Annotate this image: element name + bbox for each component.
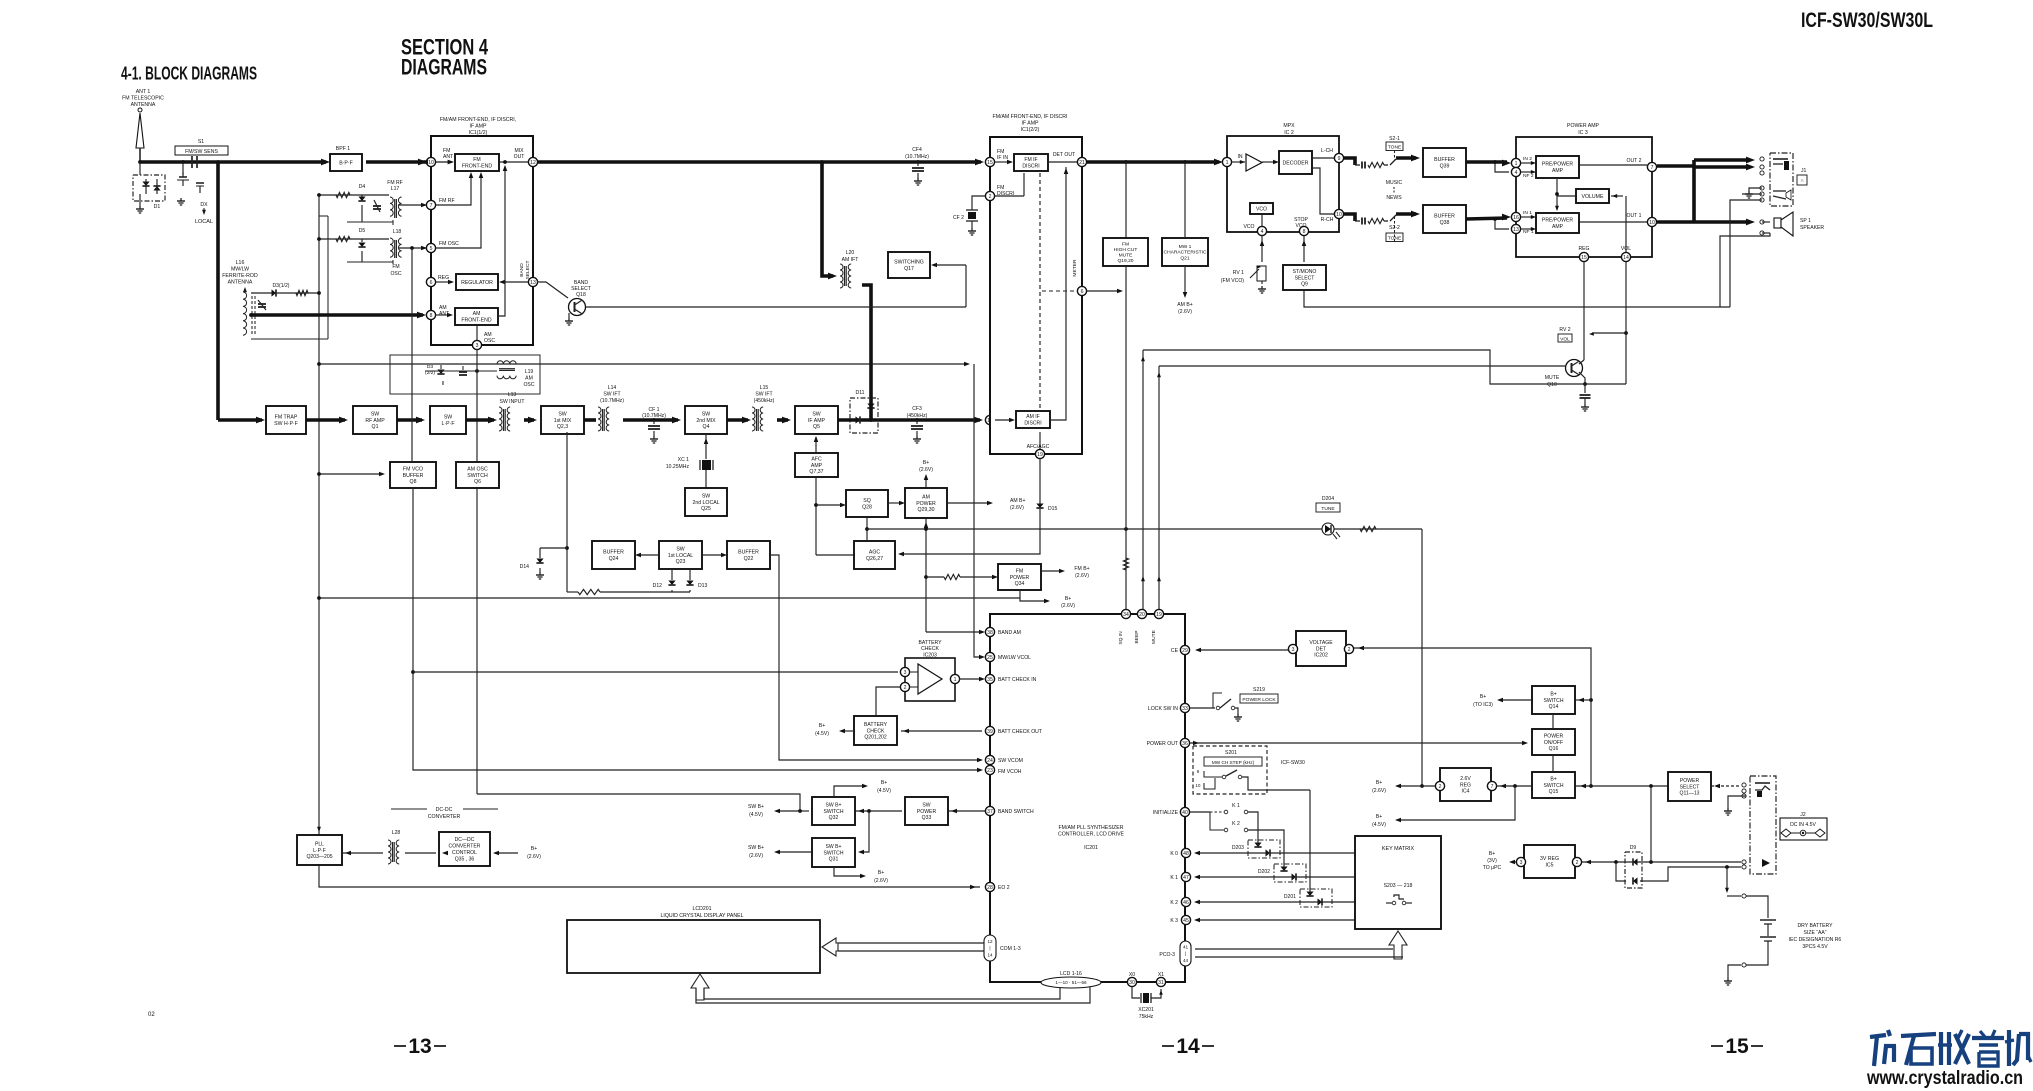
svg-text:OSC: OSC — [390, 271, 401, 277]
svg-text:33: 33 — [1182, 706, 1188, 712]
svg-text:CF 2: CF 2 — [953, 215, 964, 221]
svg-text:BUFFER: BUFFER — [403, 473, 424, 479]
svg-text:Q35 , 36: Q35 , 36 — [455, 856, 475, 862]
svg-text:25: 25 — [987, 655, 993, 661]
svg-text:(2.6V): (2.6V) — [527, 854, 541, 860]
svg-text:BAND AM: BAND AM — [998, 630, 1021, 636]
svg-text:SWITCH: SWITCH — [823, 850, 843, 856]
svg-text:AMP: AMP — [1552, 224, 1564, 230]
svg-text:BAND: BAND — [519, 263, 525, 277]
svg-text:D13: D13 — [698, 583, 708, 589]
svg-text:Q24: Q24 — [609, 556, 619, 562]
svg-text:BUFFER: BUFFER — [603, 550, 624, 556]
svg-text:Q11—13: Q11—13 — [1679, 791, 1699, 797]
svg-text:S201: S201 — [1225, 750, 1237, 756]
svg-text:FM: FM — [392, 264, 399, 270]
svg-text:FM: FM — [1122, 242, 1129, 248]
svg-text:3: 3 — [1292, 647, 1295, 653]
svg-text:34: 34 — [1123, 612, 1129, 618]
svg-text:(4.5V): (4.5V) — [877, 788, 891, 794]
svg-text:MW CH STEP (kHz): MW CH STEP (kHz) — [1212, 760, 1255, 765]
svg-text:1—10 · 51—56: 1—10 · 51—56 — [1055, 980, 1087, 985]
svg-text:FM RF: FM RF — [439, 198, 455, 204]
svg-text:Q38: Q38 — [1440, 220, 1450, 226]
svg-text:DC—DC: DC—DC — [455, 837, 475, 843]
svg-text:FRONT-END: FRONT-END — [462, 164, 493, 170]
svg-text:∩: ∩ — [1800, 178, 1804, 184]
svg-text:BATT CHECK IN: BATT CHECK IN — [998, 677, 1037, 683]
svg-text:OUT 2: OUT 2 — [1627, 158, 1642, 164]
svg-text:R-CH: R-CH — [1321, 217, 1334, 223]
svg-text:2.6V: 2.6V — [1460, 776, 1471, 782]
svg-text:MUTE: MUTE — [1151, 629, 1157, 644]
svg-text:IC1(2/2): IC1(2/2) — [1021, 127, 1040, 133]
svg-text:Q16: Q16 — [1549, 746, 1559, 752]
svg-text:14: 14 — [987, 952, 993, 957]
svg-text:VOL: VOL — [1560, 337, 1570, 343]
svg-text:B·P·F: B·P·F — [339, 160, 353, 166]
svg-text:DET: DET — [1316, 646, 1326, 652]
svg-text:2: 2 — [1439, 784, 1442, 790]
svg-text:FM TRAP: FM TRAP — [275, 415, 298, 421]
svg-text:(2.6V): (2.6V) — [919, 467, 933, 473]
svg-text:13: 13 — [530, 280, 536, 286]
svg-text:BATT CHECK OUT: BATT CHECK OUT — [998, 729, 1042, 735]
svg-text:OSC: OSC — [484, 338, 495, 344]
svg-text:L18: L18 — [393, 229, 402, 235]
svg-text:MW/LW VCOL: MW/LW VCOL — [998, 655, 1031, 661]
svg-text:AM OSC: AM OSC — [467, 466, 488, 472]
svg-text:14: 14 — [1623, 255, 1629, 261]
svg-text:(2.6V): (2.6V) — [1178, 309, 1192, 315]
svg-text:47: 47 — [1183, 875, 1189, 881]
svg-text:Q14: Q14 — [1549, 704, 1559, 710]
svg-text:Q22: Q22 — [744, 556, 754, 562]
svg-text:Q28: Q28 — [862, 505, 872, 511]
svg-text:X0: X0 — [1129, 972, 1135, 978]
svg-text:AFC/AGC: AFC/AGC — [1027, 444, 1050, 450]
svg-text:2: 2 — [989, 194, 992, 200]
svg-text:VOLUME: VOLUME — [1582, 194, 1604, 200]
svg-text:FM/AM FRONT-END, IF DISCRI,: FM/AM FRONT-END, IF DISCRI, — [440, 117, 516, 123]
svg-text:POWER: POWER — [1544, 733, 1564, 739]
svg-text:RF AMP: RF AMP — [365, 418, 385, 424]
svg-text:SWITCH: SWITCH — [1543, 783, 1563, 789]
svg-text:SQ IN: SQ IN — [1118, 631, 1124, 645]
svg-text:36: 36 — [1182, 741, 1188, 747]
svg-text:FM B+: FM B+ — [1074, 566, 1089, 572]
svg-text:21: 21 — [1079, 160, 1085, 166]
svg-text:IC202: IC202 — [1314, 653, 1328, 659]
svg-text:B+: B+ — [819, 723, 825, 729]
svg-text:(2.6V): (2.6V) — [874, 878, 888, 884]
svg-text:MW 1: MW 1 — [1179, 244, 1192, 250]
svg-text:PRE/POWER: PRE/POWER — [1542, 162, 1573, 168]
svg-text:DRY BATTERY: DRY BATTERY — [1797, 923, 1833, 929]
svg-text:S1: S1 — [198, 139, 204, 145]
svg-text:X1: X1 — [1158, 972, 1164, 978]
svg-text:PLL: PLL — [315, 841, 324, 847]
svg-text:10: 10 — [1336, 212, 1342, 218]
svg-text:AM: AM — [473, 311, 481, 317]
svg-text:L-CH: L-CH — [1321, 148, 1333, 154]
svg-text:LOCK SW IN: LOCK SW IN — [1148, 706, 1178, 712]
svg-text:Q1: Q1 — [372, 424, 379, 430]
svg-text:15: 15 — [987, 160, 993, 166]
svg-text:K 2: K 2 — [1232, 821, 1240, 827]
svg-text:IN: IN — [1237, 154, 1242, 160]
svg-text:L14: L14 — [608, 385, 617, 391]
svg-text:16: 16 — [1513, 215, 1519, 221]
svg-text:14: 14 — [1176, 1035, 1200, 1058]
svg-text:37: 37 — [987, 809, 993, 815]
svg-text:Q9: Q9 — [1301, 282, 1308, 288]
svg-text:Q29,30: Q29,30 — [917, 507, 934, 513]
svg-text:B+: B+ — [923, 460, 929, 466]
svg-text:OUT 1: OUT 1 — [1627, 213, 1642, 219]
svg-text:SELECT: SELECT — [1295, 275, 1315, 281]
svg-text:L19: L19 — [525, 369, 534, 375]
svg-text:SW IFT: SW IFT — [603, 391, 620, 397]
svg-text:IC5: IC5 — [1545, 863, 1553, 869]
svg-text:POWER: POWER — [1680, 778, 1700, 784]
svg-text:MUTE: MUTE — [1545, 375, 1560, 381]
svg-text:FM/SW SENS: FM/SW SENS — [185, 149, 218, 155]
svg-text:Q23: Q23 — [676, 559, 686, 565]
svg-text:1st LOCAL: 1st LOCAL — [668, 553, 693, 559]
svg-text:L15: L15 — [760, 385, 769, 391]
svg-text:L16: L16 — [236, 260, 245, 266]
svg-text:15: 15 — [1725, 1035, 1749, 1058]
svg-text:INITIALIZE: INITIALIZE — [1153, 810, 1179, 816]
svg-text:K 1: K 1 — [1232, 803, 1240, 809]
svg-text:24: 24 — [987, 758, 993, 764]
svg-text:(4.5V): (4.5V) — [1372, 822, 1386, 828]
svg-text:CONTROL: CONTROL — [452, 850, 477, 856]
svg-text:Q33: Q33 — [922, 815, 932, 821]
svg-text:46: 46 — [1183, 900, 1189, 906]
svg-text:1: 1 — [1226, 160, 1229, 166]
svg-text:AMP: AMP — [811, 463, 823, 469]
svg-text:POWER OUT: POWER OUT — [1147, 741, 1178, 747]
svg-text:SW VCOM: SW VCOM — [998, 758, 1023, 764]
svg-text:39: 39 — [987, 729, 993, 735]
svg-text:Q7,37: Q7,37 — [809, 469, 823, 475]
svg-text:AGC: AGC — [869, 550, 880, 556]
svg-text:Q10: Q10 — [1547, 382, 1557, 388]
svg-text:Q6: Q6 — [474, 479, 481, 485]
svg-text:10.25MHz: 10.25MHz — [666, 464, 690, 470]
svg-text:AM IF: AM IF — [1026, 414, 1040, 420]
svg-text:D201: D201 — [1284, 894, 1296, 900]
svg-text:MUSIC: MUSIC — [1386, 180, 1403, 186]
svg-text:D1: D1 — [154, 204, 161, 210]
svg-text:ANT: ANT — [443, 154, 453, 160]
svg-text:ANT 1: ANT 1 — [136, 89, 151, 95]
svg-text:NEWS: NEWS — [1386, 195, 1402, 201]
svg-text:CF4: CF4 — [912, 147, 922, 153]
svg-text:3: 3 — [904, 670, 907, 676]
svg-text:NF 2: NF 2 — [1523, 173, 1534, 179]
svg-text:(2.6V): (2.6V) — [749, 853, 763, 859]
svg-text:POWER: POWER — [916, 501, 936, 507]
svg-text:SWITCH: SWITCH — [467, 473, 488, 479]
svg-text:DX: DX — [200, 202, 208, 208]
svg-text:13: 13 — [1513, 227, 1519, 233]
svg-text:7: 7 — [1491, 784, 1494, 790]
svg-text:SW: SW — [558, 411, 566, 417]
svg-text:40: 40 — [1182, 810, 1188, 816]
svg-text:L28: L28 — [392, 830, 401, 836]
svg-text:Q31: Q31 — [829, 857, 839, 863]
svg-text:D15: D15 — [1048, 506, 1058, 512]
svg-text:SW: SW — [922, 802, 930, 808]
svg-text:1: 1 — [954, 677, 957, 683]
svg-text:75kHz: 75kHz — [1139, 1014, 1154, 1020]
svg-text:ANTENNA: ANTENNA — [228, 280, 253, 286]
svg-text:D204: D204 — [1322, 496, 1334, 502]
svg-text:SW: SW — [371, 411, 379, 417]
svg-text:SW IFT: SW IFT — [755, 391, 772, 397]
svg-text:SW B+: SW B+ — [748, 845, 764, 851]
svg-text:K 2: K 2 — [1170, 900, 1178, 906]
svg-text:Q2,3: Q2,3 — [557, 424, 568, 430]
svg-text:LIQUID CRYSTAL DISPLAY PANEL: LIQUID CRYSTAL DISPLAY PANEL — [661, 913, 744, 919]
svg-text:(3V): (3V) — [1487, 858, 1497, 864]
svg-text:15: 15 — [1581, 255, 1587, 261]
svg-text:Q8: Q8 — [410, 479, 417, 485]
svg-text:5: 5 — [430, 246, 433, 252]
svg-text:DC-DC: DC-DC — [436, 807, 453, 813]
svg-text:B+: B+ — [1065, 596, 1071, 602]
svg-text:AM: AM — [525, 375, 533, 381]
svg-text:VCO: VCO — [1243, 224, 1254, 230]
svg-text:DISCRI: DISCRI — [1024, 420, 1041, 426]
svg-text:IF AMP: IF AMP — [1021, 121, 1039, 127]
svg-text:SW INPUT: SW INPUT — [500, 399, 525, 405]
svg-text:ST/MONO: ST/MONO — [1293, 269, 1317, 275]
svg-text:TUNE: TUNE — [1321, 506, 1335, 512]
svg-text:IF AMP: IF AMP — [469, 124, 487, 130]
svg-text:(FM VCO): (FM VCO) — [1221, 278, 1245, 284]
svg-text:D12: D12 — [653, 583, 663, 589]
svg-text:(TO IC3): (TO IC3) — [1473, 702, 1493, 708]
svg-text:SW B+: SW B+ — [826, 844, 842, 850]
svg-text:TONE: TONE — [1388, 145, 1402, 151]
svg-text:(4.5V): (4.5V) — [749, 812, 763, 818]
svg-text:HIGH CUT: HIGH CUT — [1114, 247, 1138, 253]
svg-text:2nd MIX: 2nd MIX — [696, 418, 716, 424]
svg-text:REG: REG — [1460, 782, 1471, 788]
svg-text:Q5: Q5 — [813, 424, 820, 430]
svg-text:13: 13 — [408, 1035, 431, 1058]
svg-text:2: 2 — [904, 685, 907, 691]
svg-text:D4: D4 — [359, 184, 366, 190]
svg-text:3: 3 — [476, 343, 479, 349]
svg-text:FM/AM FRONT-END, IF DISCRI: FM/AM FRONT-END, IF DISCRI — [993, 114, 1068, 120]
svg-text:S203 — 218: S203 — 218 — [1384, 883, 1413, 889]
svg-text:K 3: K 3 — [1170, 918, 1178, 924]
svg-text:BUFFER: BUFFER — [738, 550, 759, 556]
svg-text:SWITCH: SWITCH — [823, 809, 843, 815]
svg-text:FM VCO: FM VCO — [403, 466, 423, 472]
svg-text:POWER AMP: POWER AMP — [1567, 123, 1600, 129]
svg-text:FRONT-END: FRONT-END — [461, 318, 492, 324]
svg-text:SW: SW — [702, 493, 710, 499]
svg-text:Q25: Q25 — [701, 506, 711, 512]
svg-text:1: 1 — [1515, 161, 1518, 167]
svg-text:7: 7 — [1651, 165, 1654, 171]
svg-text:Q32: Q32 — [829, 815, 839, 821]
svg-text:FM: FM — [1016, 568, 1024, 574]
svg-text:02: 02 — [148, 1012, 155, 1018]
svg-text:AM B+: AM B+ — [1010, 498, 1025, 504]
svg-text:CONTROLLER, LCD DRIVE: CONTROLLER, LCD DRIVE — [1058, 832, 1125, 838]
svg-text:TO μPC: TO μPC — [1483, 865, 1502, 871]
svg-text:Q15: Q15 — [1549, 789, 1559, 795]
svg-text:VCO: VCO — [1295, 223, 1306, 229]
svg-text:44: 44 — [1183, 958, 1189, 963]
svg-text:35: 35 — [987, 677, 993, 683]
svg-text:AM B+: AM B+ — [1177, 302, 1192, 308]
svg-text:(2.6V): (2.6V) — [1372, 788, 1386, 794]
svg-text:3V REG: 3V REG — [1540, 856, 1559, 862]
svg-text:IEC DESIGNATION R6: IEC DESIGNATION R6 — [1789, 937, 1842, 943]
svg-text:Q4: Q4 — [703, 424, 710, 430]
svg-text:L·P·F: L·P·F — [442, 421, 455, 427]
svg-text:REGULATOR: REGULATOR — [461, 280, 493, 286]
svg-text:SW: SW — [702, 411, 710, 417]
svg-text:XC201: XC201 — [1138, 1007, 1154, 1013]
svg-text:LOCAL: LOCAL — [195, 219, 213, 225]
svg-text:SW: SW — [812, 411, 820, 417]
svg-text:8: 8 — [1303, 229, 1306, 235]
svg-text:(450kHz): (450kHz) — [907, 413, 928, 419]
svg-text:SWITCH: SWITCH — [1543, 698, 1563, 704]
svg-text:S219: S219 — [1253, 687, 1265, 693]
svg-text:19: 19 — [1156, 612, 1162, 618]
svg-text:38: 38 — [987, 630, 993, 636]
svg-text:D9: D9 — [1630, 845, 1637, 851]
svg-text:SW B+: SW B+ — [826, 802, 842, 808]
svg-text:METER: METER — [1072, 259, 1078, 277]
svg-text:BUFFER: BUFFER — [1434, 157, 1455, 163]
svg-text:FM OSC: FM OSC — [439, 241, 459, 247]
svg-text:8: 8 — [430, 313, 433, 319]
svg-text:(2.6V): (2.6V) — [1010, 505, 1024, 511]
svg-text:Q39: Q39 — [1440, 164, 1450, 170]
svg-text:DC IN 4.5V: DC IN 4.5V — [1790, 822, 1816, 828]
svg-text:DIAGRAMS: DIAGRAMS — [401, 55, 487, 80]
svg-text:CONVERTER: CONVERTER — [449, 844, 481, 850]
svg-text:10: 10 — [428, 160, 434, 166]
svg-text:D3: D3 — [427, 364, 434, 370]
svg-text:PCO-3: PCO-3 — [1159, 952, 1175, 958]
svg-text:IC 3: IC 3 — [1578, 130, 1588, 136]
svg-text:IF AMP: IF AMP — [808, 418, 826, 424]
svg-text:LCD 1-16: LCD 1-16 — [1060, 971, 1082, 977]
svg-text:1st MIX: 1st MIX — [554, 418, 572, 424]
svg-text:Q26,27: Q26,27 — [866, 556, 883, 562]
svg-text:4-1. BLOCK DIAGRAMS: 4-1. BLOCK DIAGRAMS — [121, 63, 257, 84]
svg-text:S2-2: S2-2 — [1389, 225, 1400, 231]
svg-text:6: 6 — [1081, 289, 1084, 295]
svg-text:SELECT: SELECT — [525, 260, 531, 279]
svg-text:6: 6 — [430, 280, 433, 286]
svg-text:BATTERY: BATTERY — [864, 722, 888, 728]
svg-text:|: | — [1185, 951, 1186, 956]
svg-text:Q19,20: Q19,20 — [1117, 258, 1133, 264]
svg-text:LCD201: LCD201 — [692, 906, 711, 912]
svg-text:SW: SW — [676, 546, 684, 552]
svg-text:2: 2 — [1348, 647, 1351, 653]
svg-text:KEY MATRIX: KEY MATRIX — [1382, 846, 1415, 852]
svg-text:K 1: K 1 — [1170, 875, 1178, 881]
svg-text:CF3: CF3 — [912, 406, 922, 412]
svg-text:(10.7MHz): (10.7MHz) — [905, 154, 929, 160]
svg-text:D3(1/2): D3(1/2) — [273, 283, 290, 289]
svg-text:FM TELESCOPIC: FM TELESCOPIC — [122, 96, 164, 102]
svg-text:EO 2: EO 2 — [998, 885, 1010, 891]
svg-text:FM: FM — [473, 157, 481, 163]
svg-text:12: 12 — [987, 939, 993, 944]
svg-text:BPF 1: BPF 1 — [336, 146, 351, 152]
svg-text:7: 7 — [430, 203, 433, 209]
svg-text:POWER: POWER — [1010, 575, 1030, 581]
svg-text:Q17: Q17 — [904, 266, 914, 272]
svg-text:DECODER: DECODER — [1283, 160, 1309, 166]
svg-text:S2-1: S2-1 — [1389, 136, 1400, 142]
svg-text:D14: D14 — [520, 564, 530, 570]
svg-text:3: 3 — [1520, 860, 1523, 866]
svg-text:OUT: OUT — [514, 154, 525, 160]
svg-text:(2.6V): (2.6V) — [1075, 573, 1089, 579]
svg-text:CE: CE — [1171, 648, 1179, 654]
svg-text:BAND SWITCH: BAND SWITCH — [998, 809, 1034, 815]
svg-text:MUTE: MUTE — [1119, 252, 1134, 258]
svg-text:CHECK: CHECK — [867, 728, 885, 734]
svg-text:REG: REG — [438, 275, 449, 281]
svg-text:L·P·F: L·P·F — [313, 848, 326, 854]
svg-text:48: 48 — [1183, 851, 1189, 857]
svg-text:POWER LOCK: POWER LOCK — [1242, 697, 1276, 703]
svg-text:L20: L20 — [846, 250, 855, 256]
svg-text:28: 28 — [987, 885, 993, 891]
svg-text:IF IN: IF IN — [997, 155, 1008, 161]
svg-text:FM IF: FM IF — [1024, 157, 1037, 163]
svg-text:10: 10 — [1196, 783, 1201, 788]
svg-text:(10.7MHz): (10.7MHz) — [642, 413, 666, 419]
svg-text:31: 31 — [1158, 980, 1164, 986]
svg-text:4: 4 — [1515, 170, 1518, 176]
svg-text:VOLTAGE: VOLTAGE — [1309, 640, 1333, 646]
svg-text:23: 23 — [987, 768, 993, 774]
svg-text:20: 20 — [1139, 612, 1145, 618]
svg-text:(4.5V): (4.5V) — [815, 731, 829, 737]
svg-text:29: 29 — [1182, 648, 1188, 654]
svg-text:9: 9 — [1338, 156, 1341, 162]
svg-text:BATTERY: BATTERY — [918, 640, 942, 646]
svg-text:DISCRI: DISCRI — [1022, 163, 1039, 169]
svg-text:DET OUT: DET OUT — [1053, 152, 1075, 158]
svg-text:B+: B+ — [531, 846, 537, 852]
svg-text:ICF-SW30/SW30L: ICF-SW30/SW30L — [1801, 9, 1933, 32]
svg-text:L17: L17 — [391, 186, 400, 192]
svg-text:J2: J2 — [1800, 812, 1806, 818]
svg-text:B+: B+ — [878, 870, 884, 876]
svg-text:SP 1: SP 1 — [1800, 218, 1811, 224]
svg-text:ANTENNA: ANTENNA — [131, 102, 156, 108]
